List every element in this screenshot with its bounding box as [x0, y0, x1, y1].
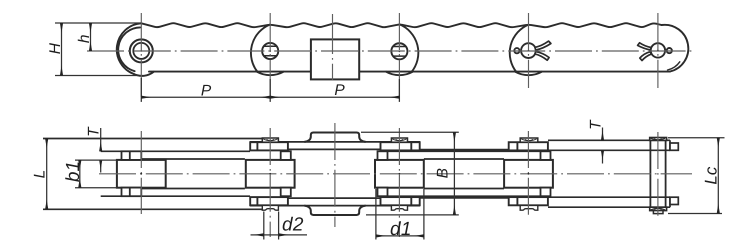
pin3 plate heel arc — [399, 24, 418, 72]
svg-text:P: P — [334, 82, 345, 99]
plan pin2 vertical centerline — [269, 128, 271, 237]
bushing end rect pin1 bottom — [122, 188, 142, 197]
roller1 outer circle — [130, 39, 153, 62]
roller R1 (plan) — [117, 160, 166, 188]
inner plate inner face bottom segments — [141, 188, 504, 190]
svg-text:T: T — [588, 119, 605, 130]
plan pin5 vertical centerline — [657, 132, 659, 218]
roller R2 (plan) — [246, 160, 295, 188]
attachment block (elevation) — [311, 39, 359, 79]
pin5 bottom tail — [653, 211, 663, 214]
svg-text:P: P — [201, 82, 212, 99]
attachment hump bottom — [304, 206, 365, 215]
inner plate outer face bottom segments — [101, 195, 548, 197]
pin1 vertical centerline — [140, 13, 142, 102]
attachment plate inner face top — [288, 148, 381, 150]
pin4 vertical centerline — [528, 13, 530, 88]
attachment plate inner face bottom — [288, 197, 381, 199]
right outer plate outer face bottom — [548, 197, 670, 207]
outer plate line top-left — [43, 138, 262, 140]
link3-4 plate line top — [420, 149, 508, 151]
P dimension line 2 — [271, 96, 400, 98]
plan pin3 vertical centerline — [398, 128, 400, 237]
pin4 plate bottom bump arc — [515, 72, 541, 75]
d1 extension lines — [376, 189, 424, 240]
dish curves pins 2,3,4 — [263, 139, 537, 141]
Lc dimension line — [717, 138, 719, 213]
roller R4 (plan) — [504, 160, 553, 188]
pin4 pin circle — [521, 43, 536, 58]
P dimension line 1 — [142, 96, 270, 98]
pin2 plate heel arc — [251, 25, 270, 72]
pin5 head bottom — [650, 207, 667, 210]
attachment centerline elevation — [332, 14, 334, 80]
plan pin1 vertical centerline — [140, 131, 142, 214]
wavy top plate line — [141, 23, 661, 27]
H extension bottom — [55, 75, 138, 77]
washer pin3 — [381, 142, 420, 150]
pin head pin2 top (dished) — [262, 138, 538, 210]
inner plate inner face top segments — [141, 158, 504, 160]
plan attachment vertical centerline — [334, 123, 336, 227]
pin2 vertical centerline — [269, 13, 271, 102]
pin3 bushing circle — [391, 43, 407, 59]
bushing end rect pin3 — [378, 151, 388, 160]
attachment plate outer face top — [250, 141, 420, 143]
svg-text:h: h — [76, 34, 93, 43]
plan pin4 vertical centerline — [527, 131, 529, 216]
T right dimension — [602, 128, 604, 141]
right chain end inner arc — [668, 62, 680, 70]
left plate end outer arc — [117, 23, 141, 74]
H extension top — [55, 22, 141, 24]
pin5 pin circle — [651, 43, 665, 57]
bushing end rect pin4 — [541, 151, 551, 160]
b1 dimension line — [79, 160, 81, 187]
washer pin4 — [509, 142, 548, 150]
pin5 cotter legs — [638, 43, 651, 50]
right plate end cap top — [670, 143, 678, 150]
L dimension line — [46, 139, 48, 209]
chain bottom plate line (left of attachment block) — [149, 71, 311, 73]
inner plate outer face top segments — [101, 150, 548, 152]
pin3 plate bottom bump arc — [386, 72, 412, 75]
pin5 cotter ring — [667, 48, 672, 53]
pin2 plate bottom bump arc — [257, 72, 283, 75]
B dimension line — [453, 133, 455, 215]
pin5 head top — [650, 138, 667, 141]
d1 dimension line — [376, 235, 423, 237]
roller1 bushing circle — [133, 43, 149, 59]
right chain end outer arc — [662, 25, 689, 72]
left plate end bottom bump arc — [134, 72, 154, 76]
roller R3 (plan) — [375, 160, 424, 188]
B extension lines — [361, 132, 459, 215]
pin4 cotter ring — [514, 48, 519, 53]
svg-text:d1: d1 — [390, 219, 412, 240]
attachment hump top — [304, 133, 365, 142]
svg-text:Lc: Lc — [702, 166, 721, 184]
outer plate line bottom-left (mirror) — [43, 208, 262, 210]
washer pin2 top — [250, 142, 548, 205]
right plate end cap bottom — [670, 197, 678, 204]
d2 extension lines — [264, 212, 279, 240]
svg-text:b1: b1 — [63, 161, 84, 182]
link3-4 plate line bottom — [420, 197, 508, 199]
right outer plate inner face bottom — [548, 196, 670, 198]
svg-text:L: L — [31, 170, 48, 179]
d2 dimension line with outside arrows — [251, 234, 264, 236]
attachment plate outer face bottom — [250, 205, 420, 207]
elevation horizontal centerline — [87, 50, 694, 52]
Lc extension lines — [668, 138, 725, 214]
svg-text:d2: d2 — [282, 215, 304, 236]
P extension verticals — [141, 78, 399, 102]
plan horizontal centerline — [99, 173, 692, 175]
b1 extension lines — [75, 160, 117, 188]
right outer plate inner face top — [548, 149, 670, 151]
svg-text:T: T — [85, 126, 102, 137]
svg-text:H: H — [47, 42, 64, 54]
right outer plate outer face top — [548, 140, 670, 150]
chain bottom plate line (right of attachment block) — [359, 71, 670, 73]
pin4 plate heel arc — [510, 25, 529, 72]
bushing end rect pin2 — [281, 151, 291, 160]
svg-text:B: B — [435, 168, 452, 178]
H dimension line — [61, 23, 63, 75]
T left dimension — [100, 128, 102, 151]
left plate end inner arc — [118, 27, 140, 71]
h dimension line — [90, 23, 92, 50]
pin3 vertical centerline — [398, 13, 400, 102]
bushing end rect pin1 top — [122, 151, 551, 196]
pin5 pin bar — [650, 140, 665, 207]
pin2 bushing circle — [262, 43, 278, 59]
pin4 cotter legs — [535, 41, 551, 50]
pin5 vertical centerline — [657, 13, 659, 88]
